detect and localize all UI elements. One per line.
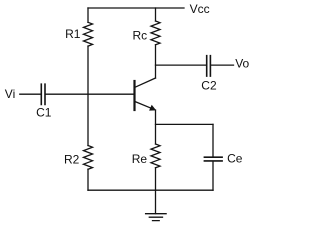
resistor Re (151, 144, 160, 168)
wire emitter vertical (155, 110, 157, 144)
transistor Q1 emitter arrowhead (149, 105, 156, 111)
svg-text:Ce: Ce (227, 152, 243, 166)
svg-text:C1: C1 (36, 105, 52, 119)
wire Vi to C1 (20, 93, 41, 95)
svg-text:Vcc: Vcc (190, 2, 210, 16)
wire C2 to Vo (211, 64, 234, 66)
ground (146, 214, 167, 221)
resistor R2 (84, 146, 93, 170)
wire R1 bottom to base node (87, 46, 89, 145)
svg-text:C2: C2 (201, 78, 217, 92)
wire C1 to base (46, 93, 134, 95)
wire Rc top lead (155, 8, 157, 21)
svg-text:Vo: Vo (235, 56, 249, 70)
svg-text:Vi: Vi (5, 87, 15, 101)
resistor R1 (84, 22, 93, 46)
capacitor C1 (41, 84, 45, 104)
capacitor C2 (207, 56, 211, 76)
wire R2 bottom lead (87, 169, 89, 190)
wire Re bottom lead (155, 168, 157, 190)
wire Rc bottom to collector (155, 45, 157, 78)
wire top rail Vcc (88, 7, 184, 9)
svg-text:Rc: Rc (133, 29, 148, 43)
capacitor Ce (204, 157, 222, 161)
wire R1 top lead (87, 8, 89, 22)
wire emitter node to Ce (156, 123, 214, 125)
svg-text:R1: R1 (65, 27, 81, 41)
transistor Q1 emitter diagonal (135, 102, 154, 110)
svg-text:R2: R2 (64, 153, 80, 167)
resistor Rc (151, 21, 160, 45)
wire ground stem (155, 190, 157, 213)
wire Ce bottom lead (212, 162, 214, 191)
svg-text:Re: Re (132, 152, 148, 166)
transistor Q1 base bar (133, 81, 135, 110)
transistor Q1 collector diagonal (135, 78, 156, 87)
wire Ce top lead (212, 124, 214, 156)
wire output node to C2 (156, 64, 207, 66)
wire bottom rail (88, 189, 213, 191)
